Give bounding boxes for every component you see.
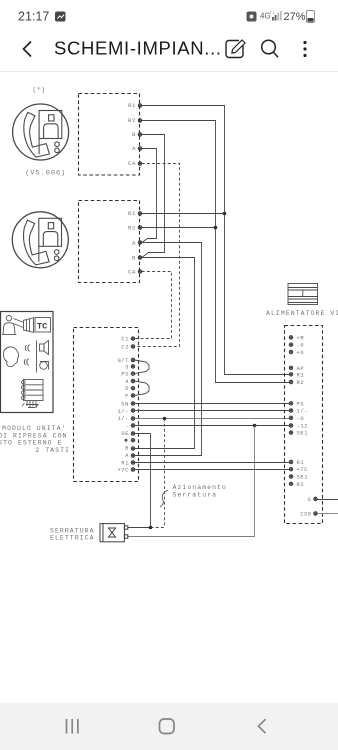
svg-text:S: S [308, 496, 312, 503]
PSU pin 230 [314, 512, 317, 515]
wire SE to lock [135, 434, 151, 528]
junction lock top [149, 526, 153, 530]
junction R1 bus [223, 212, 227, 216]
junction lock return tap [253, 424, 257, 428]
svg-text:R1: R1 [128, 102, 136, 109]
lock top wire [128, 527, 151, 529]
junction R2 bus [214, 226, 218, 230]
svg-text:B: B [132, 131, 136, 138]
PSU pins left column [289, 336, 292, 486]
svg-text:(*): (*) [32, 87, 45, 94]
status bar: battery [307, 11, 315, 23]
svg-text:CA: CA [128, 160, 136, 167]
module terminal box (dashed) [74, 328, 139, 482]
PSU terminal box (dashed) [285, 326, 323, 524]
svg-text:21:17: 21:17 [18, 10, 49, 24]
wire R1 bus: monitor1 R1 to PSU R1 [142, 106, 290, 375]
status bar: signal bars [272, 11, 282, 21]
svg-text:PS: PS [121, 371, 129, 378]
wire B: monitor1 B down to monitor2 B [142, 135, 165, 258]
module icon: camera body TC [35, 318, 51, 333]
wire monitor2 R2 branch [142, 227, 216, 229]
svg-text:C2: C2 [121, 344, 129, 351]
svg-text:SN: SN [121, 401, 129, 408]
svg-text:B: B [125, 445, 129, 452]
monitor 1 pins R1 R2 B A CA [138, 104, 141, 165]
wire - to PSU -12 [135, 425, 290, 427]
svg-text:+6: +6 [297, 349, 305, 356]
svg-text:Azionamento: Azionamento [173, 484, 227, 491]
wire 1/- to PSU 1/- [135, 410, 290, 412]
svg-text:+7C: +7C [117, 467, 129, 474]
camera sight lines [14, 319, 24, 328]
status bar [0, 0, 338, 26]
svg-text:SCHEMI-IMPIAN...: SCHEMI-IMPIAN... [54, 38, 222, 59]
wire monitor2 R1 branch [142, 213, 225, 215]
svg-text:-6: -6 [297, 342, 305, 349]
serratura pointer arc [160, 490, 168, 507]
svg-text:R1: R1 [121, 459, 129, 466]
app bar [0, 26, 338, 71]
svg-text:4: 4 [125, 378, 129, 385]
svg-text:3: 3 [125, 363, 129, 370]
PSU pin labels [297, 334, 309, 487]
status bar: notification icon [55, 12, 66, 22]
jumper G/T-PS [135, 360, 149, 374]
camera module outer box [1, 312, 54, 413]
svg-text:R1: R1 [297, 459, 305, 466]
wire 230 mains [317, 513, 338, 515]
svg-text:SERRATURA: SERRATURA [50, 528, 95, 535]
monitor 1 terminal box [79, 94, 140, 176]
svg-text:R2: R2 [128, 225, 136, 232]
nav bar: recents icon [67, 719, 78, 734]
lock top wire dashed tail [151, 527, 165, 529]
module icon: speaker and mic [37, 341, 49, 373]
nav bar: home icon [160, 719, 175, 734]
svg-text:SE1: SE1 [297, 474, 309, 481]
nav bar: back icon [259, 719, 266, 733]
electric lock body [100, 524, 128, 542]
lock return wire to -12 [128, 426, 255, 537]
svg-text:DI RIPRESA CON: DI RIPRESA CON [0, 432, 68, 439]
wire monitor2 B to module B [135, 258, 195, 449]
svg-text:+R: +R [297, 334, 305, 341]
module icon: person [2, 316, 16, 335]
app bar: overflow menu [303, 41, 306, 57]
module pin bullet label [125, 439, 128, 442]
svg-text:A: A [132, 240, 136, 247]
wire module R1 to PSU R1 [135, 462, 290, 464]
junction lock dashed tap [163, 417, 167, 421]
wire module +7C to PSU +7C [135, 469, 290, 471]
svg-text:Serratura: Serratura [173, 491, 218, 498]
svg-text:R1: R1 [297, 371, 305, 378]
monitor 2 pins R1 R2 A B CA [138, 212, 141, 273]
svg-text:TC: TC [37, 322, 47, 332]
svg-text:B: B [132, 255, 136, 262]
svg-text:SE1: SE1 [297, 430, 309, 437]
transformer symbol [288, 284, 318, 305]
monitor 2 (videophone) [12, 212, 68, 268]
wire 1/- to PSU -0 [135, 418, 290, 420]
monitor 2 pin labels [128, 210, 136, 276]
wire CA monitor2 to module C1 (dashed) [135, 272, 172, 339]
wire S mains [317, 499, 338, 501]
svg-text:1/-: 1/- [117, 415, 129, 422]
wire monitor2 A to module A [135, 243, 202, 456]
module icon: face with sound [3, 345, 29, 367]
module icon: camera lens [24, 318, 34, 333]
svg-text:R1: R1 [128, 210, 136, 217]
wire CA monitor1 to module C2 (dashed) [135, 164, 180, 347]
svg-text:ELETTRICA: ELETTRICA [50, 535, 95, 542]
svg-text:(VS.006): (VS.006) [25, 170, 66, 178]
monitor 1 pin labels [128, 102, 136, 167]
svg-text:27%: 27% [284, 11, 306, 23]
svg-text:SE: SE [121, 430, 129, 437]
dashed lock activation wire [164, 419, 166, 528]
svg-text:R2: R2 [128, 117, 136, 124]
svg-text:POSTO ESTERNO E: POSTO ESTERNO E [0, 440, 63, 447]
monitor 1 (videophone) [13, 104, 69, 160]
wire R2 bus: monitor1 R2 to PSU R2 [142, 121, 290, 383]
wire A: monitor1 A down to monitor2 A [142, 149, 157, 243]
status bar: screenshot icon [247, 12, 257, 22]
module pin labels [117, 336, 129, 474]
svg-text:R2: R2 [297, 379, 305, 386]
svg-text:1/-: 1/- [297, 408, 309, 415]
svg-text:-12: -12 [297, 423, 309, 430]
svg-text:5: 5 [125, 385, 129, 392]
svg-text:A: A [132, 145, 136, 152]
svg-text:F: F [125, 393, 129, 400]
status bar: 4G indicator [260, 10, 275, 21]
svg-text:R2: R2 [297, 481, 305, 488]
app bar: back chevron [24, 42, 32, 57]
svg-text:230: 230 [300, 511, 312, 518]
svg-text:-: - [125, 423, 129, 430]
svg-text:+7C: +7C [297, 466, 309, 473]
app bar: edit icon [226, 40, 245, 58]
PSU pin S [314, 497, 317, 500]
module caption MODULO UNITA' DI RIPRESA CON POSTO ESTERNO E 2 TASTI [0, 425, 70, 454]
app bar: search icon [262, 40, 278, 57]
svg-text:1/-: 1/- [117, 408, 129, 415]
svg-text:ALIMENTATORE VI: ALIMENTATORE VI [266, 310, 338, 317]
bottom navigation bar [0, 703, 338, 750]
monitor 2 terminal box [79, 201, 140, 283]
svg-text:-0: -0 [297, 415, 305, 422]
module icon: terminal block [22, 380, 44, 409]
module pins C1 C2 G/T 3 PS 4 5 F SN 1/- 1/- - SE . B A R1 +7C [131, 337, 134, 471]
svg-text:2 TASTI: 2 TASTI [35, 447, 70, 454]
svg-text:PS: PS [297, 400, 305, 407]
jumper 4-F [135, 381, 149, 396]
svg-text:A: A [125, 452, 129, 459]
svg-text:MODULO UNITA': MODULO UNITA' [2, 425, 66, 432]
svg-text:C1: C1 [121, 336, 129, 343]
wire SN to PSU PS [135, 403, 290, 405]
svg-text:↑↓: ↑↓ [270, 10, 276, 16]
svg-text:CA: CA [128, 269, 136, 276]
